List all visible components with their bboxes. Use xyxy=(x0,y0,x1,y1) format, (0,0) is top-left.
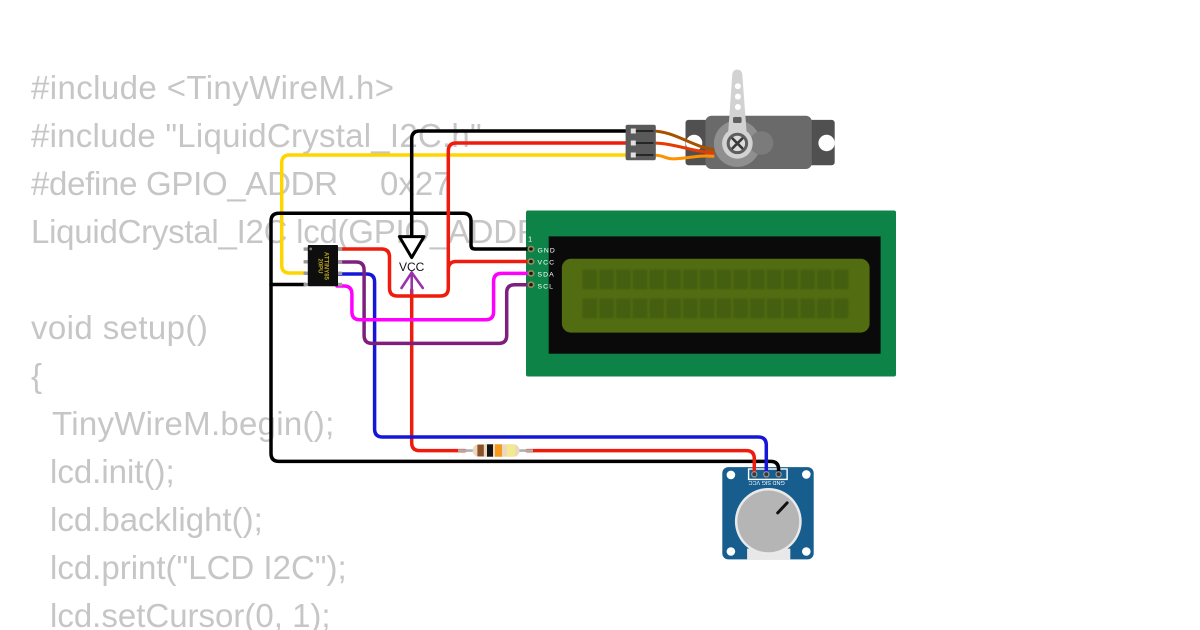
LCD pin pads (over wires) xyxy=(528,247,533,288)
svg-text:#include "LiquidCrystal_I2C.h": #include "LiquidCrystal_I2C.h" xyxy=(31,117,482,154)
wire black chip GND stub xyxy=(271,283,305,287)
svg-text:SDA: SDA xyxy=(538,271,555,278)
pot shaft plate xyxy=(747,549,790,560)
svg-text:lcd.setCursor(0, 1);: lcd.setCursor(0, 1); xyxy=(50,597,331,630)
svg-text:void setup(): void setup() xyxy=(31,309,208,346)
pot PCB xyxy=(722,467,813,559)
servo horn arm xyxy=(727,70,747,144)
svg-text:#include <TinyWireM.h>: #include <TinyWireM.h> xyxy=(31,69,394,106)
svg-text:GND: GND xyxy=(538,247,556,254)
svg-text:{: { xyxy=(31,357,42,394)
resistor band black xyxy=(487,444,493,456)
wire blue chip to pot SIG xyxy=(337,274,766,474)
svg-text:VCC: VCC xyxy=(538,259,556,266)
servo motor M1 xyxy=(686,70,835,170)
connector pin squares xyxy=(631,129,636,158)
pot knob ring xyxy=(735,488,802,555)
wire yellow servo SIG to chip xyxy=(282,155,627,273)
wire purple chip to LCD SCL xyxy=(337,262,531,343)
chip body xyxy=(308,245,338,286)
pot pins (over wires) xyxy=(752,472,782,477)
svg-text:SCL: SCL xyxy=(538,283,555,290)
LCD screen xyxy=(562,259,870,333)
servo body xyxy=(706,116,812,169)
servo flange plate xyxy=(686,120,835,165)
wire red LCD VCC branch xyxy=(448,262,531,274)
svg-text:SIG: SIG xyxy=(762,479,771,485)
wire magenta chip to LCD SDA xyxy=(337,273,531,319)
resistor body xyxy=(473,444,520,457)
servo screw xyxy=(728,134,746,152)
resistor band brown xyxy=(477,445,483,457)
servo connector wires (brown/red/orange) xyxy=(652,131,713,159)
servo horn slot xyxy=(733,117,742,123)
LCD PCB xyxy=(526,211,896,377)
LCD1602 I2C module LCD1 xyxy=(526,211,896,377)
wire red servo VCC down to chip xyxy=(337,143,627,296)
wire black servo GND xyxy=(412,131,627,239)
wire black loop: LCD GND to pot GND xyxy=(271,213,779,474)
ground symbol (triangle) xyxy=(399,237,424,258)
svg-text:lcd.backlight();: lcd.backlight(); xyxy=(50,501,263,538)
servo screw cross xyxy=(733,139,743,149)
chip pin1 dot xyxy=(309,248,312,251)
chip right pins xyxy=(338,247,342,286)
LCD pin labels xyxy=(538,247,556,290)
pot pin labels (upside down) xyxy=(748,479,784,485)
svg-text:#define GPIO_ADDR: #define GPIO_ADDR xyxy=(31,165,338,202)
LCD character grid xyxy=(583,270,849,319)
resistor band gold xyxy=(507,445,515,457)
connector pin strips xyxy=(631,130,654,156)
svg-text:20PU: 20PU xyxy=(317,258,323,273)
svg-text:ATTINY85: ATTINY85 xyxy=(323,252,329,281)
servo horn hub xyxy=(722,128,753,159)
VCC symbol (purple arrow) xyxy=(402,273,423,294)
resistor leads xyxy=(458,449,533,452)
LCD bezel xyxy=(549,236,881,353)
pot header outline xyxy=(749,469,788,479)
ATtiny85 chip U1 xyxy=(304,245,343,286)
servo big gear xyxy=(714,120,761,167)
servo horn holes xyxy=(735,83,741,110)
servo flange holes xyxy=(686,135,702,151)
resistor band orange xyxy=(495,444,502,456)
svg-text:TinyWireM.begin();: TinyWireM.begin(); xyxy=(52,405,335,442)
servo small gear xyxy=(750,131,774,155)
pot indicator xyxy=(778,503,787,513)
resistor R1 xyxy=(458,444,533,457)
svg-text:VCC: VCC xyxy=(748,479,760,485)
svg-text:lcd.print("LCD I2C");: lcd.print("LCD I2C"); xyxy=(50,549,347,586)
svg-text:GND: GND xyxy=(772,479,784,485)
servo connector xyxy=(626,125,656,161)
svg-text:0x27: 0x27 xyxy=(380,165,452,202)
potentiometer RV1 (board, under wires) xyxy=(722,467,813,559)
chip label xyxy=(317,252,329,281)
svg-text:1: 1 xyxy=(528,235,532,244)
wire red VCC symbol to resistor to pot xyxy=(412,290,755,474)
pot knob xyxy=(737,491,799,553)
chip left pins xyxy=(304,247,308,286)
svg-text:lcd.init();: lcd.init(); xyxy=(50,453,175,490)
code background text xyxy=(31,69,632,630)
pot corner holes xyxy=(727,470,811,556)
